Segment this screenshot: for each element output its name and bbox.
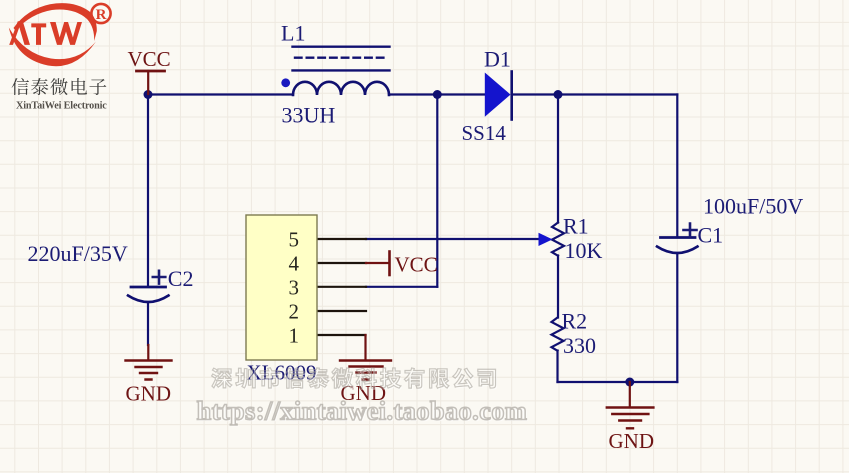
ground below C2	[147, 345, 149, 360]
junction node D1/R1/C1	[554, 90, 563, 99]
R1 wiper arrow	[539, 233, 553, 246]
svg-text:XinTaiWei Electronic: XinTaiWei Electronic	[16, 101, 107, 112]
pin 4 stub	[317, 262, 366, 264]
svg-text:SS14: SS14	[462, 121, 507, 145]
svg-text:33UH: 33UH	[282, 103, 336, 128]
watermark url	[197, 396, 529, 428]
logo letter X (lambda)	[9, 21, 30, 45]
logo letter T	[31, 23, 46, 45]
wire D1 cathode to C1 corner	[512, 93, 677, 95]
wire R2 bottom to bottom rail	[556, 351, 558, 383]
pin 2 stub	[317, 310, 366, 312]
svg-text:R2: R2	[562, 309, 588, 334]
svg-text:GND: GND	[126, 382, 172, 406]
svg-text:100uF/50V: 100uF/50V	[703, 194, 803, 219]
power VCC (pin 4)	[366, 262, 389, 264]
wire VCC node down to C2	[147, 95, 149, 287]
power VCC (top)	[137, 70, 165, 73]
svg-text:VCC: VCC	[128, 47, 171, 71]
wire C2 bottom to GND	[147, 303, 149, 346]
junction node bottom rail / GND	[625, 378, 634, 387]
wire L1 to D1 anode	[389, 93, 485, 95]
logo XTW swoosh bottom crescent	[9, 28, 96, 67]
svg-text:C1: C1	[698, 223, 724, 248]
C2 plus sign	[153, 271, 166, 284]
wire pin 5 to R1 wiper	[366, 238, 540, 240]
wire C1 column lower	[676, 254, 678, 383]
logo registered mark	[91, 4, 110, 23]
logo letter W	[50, 22, 82, 45]
inductor L1 core lines	[293, 46, 390, 48]
wire feedback to pin 3	[366, 286, 437, 288]
svg-text:330: 330	[563, 333, 596, 358]
svg-text:https://xintaiwei.taobao.com: https://xintaiwei.taobao.com	[197, 396, 528, 426]
wire C1 column upper	[676, 95, 678, 237]
svg-text:XL6009: XL6009	[247, 361, 317, 385]
svg-text:D1: D1	[484, 47, 511, 72]
svg-text:3: 3	[289, 276, 300, 300]
svg-text:R1: R1	[563, 214, 589, 239]
capacitor C2 plates	[131, 286, 166, 289]
svg-text:C2: C2	[168, 266, 194, 291]
junction node L1/D1/feedback	[433, 90, 442, 99]
capacitor C1 plates	[661, 236, 696, 239]
ground bottom right	[629, 382, 631, 407]
pin 3 stub	[317, 286, 366, 288]
wire L1/D1 node down (feedback)	[436, 95, 438, 287]
svg-text:4: 4	[289, 252, 300, 276]
pin 5 stub	[317, 238, 366, 240]
svg-text:5: 5	[289, 228, 300, 252]
diode D1	[485, 73, 511, 117]
logo chinese name	[12, 78, 107, 95]
C1 plus sign	[684, 224, 697, 237]
svg-text:10K: 10K	[565, 238, 603, 263]
svg-text:VCC: VCC	[395, 253, 438, 277]
inductor L1 phase dot	[281, 78, 290, 87]
svg-text:L1: L1	[281, 21, 305, 46]
svg-text:GND: GND	[609, 429, 655, 453]
wire R1 bottom to R2 top	[557, 256, 559, 318]
junction node VCC/top rail	[144, 90, 153, 99]
ground at pin 1	[364, 335, 366, 360]
IC U1 XL6009 body	[246, 215, 317, 360]
wire VCC-node to L1 (top rail left)	[148, 93, 293, 95]
logo XTW swoosh top arc	[9, 3, 97, 66]
resistor R1 (pot)	[552, 223, 564, 256]
wire node to R1 top	[557, 95, 559, 223]
svg-text:220uF/35V: 220uF/35V	[28, 241, 128, 266]
pin 1 stub	[317, 334, 366, 336]
watermark company name (chinese)	[212, 368, 497, 390]
svg-text:R: R	[96, 7, 107, 23]
svg-text:1: 1	[289, 324, 300, 348]
wire bottom rail	[558, 381, 678, 383]
svg-text:2: 2	[289, 300, 300, 324]
inductor L1 winding	[293, 82, 389, 95]
resistor R2	[552, 318, 564, 351]
